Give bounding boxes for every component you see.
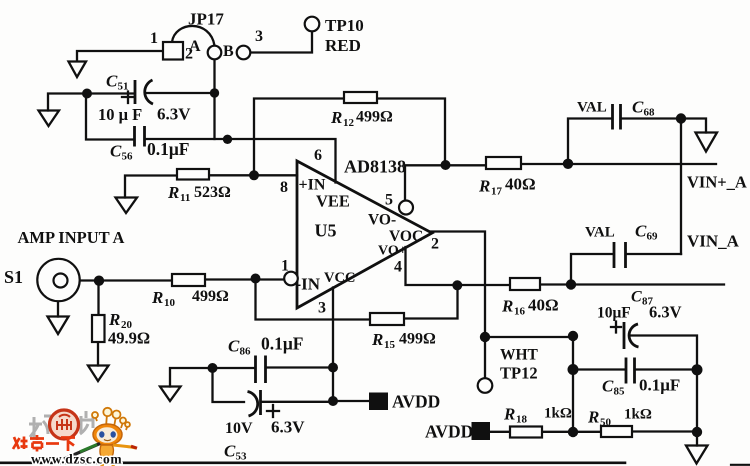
svg-text:TP10: TP10 — [325, 16, 364, 35]
svg-text:R: R — [167, 183, 179, 202]
svg-text:18: 18 — [516, 414, 528, 426]
svg-text:R: R — [330, 108, 342, 127]
svg-text:S1: S1 — [4, 267, 23, 287]
svg-text:51: 51 — [118, 81, 129, 93]
svg-text:JP17: JP17 — [188, 10, 224, 29]
svg-text:0.1μF: 0.1μF — [261, 334, 304, 354]
svg-text:VEE: VEE — [316, 192, 350, 211]
svg-text:85: 85 — [614, 386, 626, 398]
svg-text:68: 68 — [644, 107, 656, 119]
svg-text:R: R — [478, 177, 490, 196]
svg-text:WHT: WHT — [500, 347, 539, 364]
svg-text:U5: U5 — [315, 221, 337, 241]
svg-text:C: C — [602, 377, 614, 396]
svg-text:C: C — [228, 337, 240, 356]
svg-text:C: C — [106, 72, 118, 91]
svg-text:AVDD: AVDD — [392, 392, 440, 412]
svg-text:C: C — [224, 442, 236, 461]
svg-text:C: C — [110, 142, 122, 161]
svg-text:5: 5 — [385, 192, 393, 209]
svg-text:12: 12 — [343, 117, 355, 129]
svg-text:R: R — [371, 330, 383, 349]
svg-text:10V: 10V — [225, 420, 253, 437]
svg-text:R: R — [501, 297, 513, 316]
svg-text:40Ω: 40Ω — [528, 296, 559, 315]
svg-text:6.3V: 6.3V — [271, 418, 305, 437]
svg-text:0.1μF: 0.1μF — [639, 376, 680, 395]
svg-text:17: 17 — [491, 186, 503, 198]
svg-text:499Ω: 499Ω — [399, 331, 436, 348]
svg-text:10μF: 10μF — [597, 305, 631, 322]
svg-text:50: 50 — [600, 417, 612, 429]
svg-text:VOC: VOC — [389, 228, 423, 245]
svg-text:499Ω: 499Ω — [192, 288, 229, 305]
svg-text:VO-: VO- — [368, 212, 396, 229]
svg-text:3: 3 — [318, 300, 326, 317]
svg-text:1: 1 — [150, 30, 158, 47]
svg-text:6: 6 — [314, 147, 322, 164]
svg-text:3: 3 — [255, 28, 263, 45]
svg-text:15: 15 — [384, 339, 396, 351]
svg-text:VCC: VCC — [324, 270, 355, 286]
svg-text:VAL: VAL — [577, 100, 607, 116]
svg-text:86: 86 — [240, 346, 252, 358]
svg-text:B: B — [223, 43, 234, 60]
svg-text:VIN_A: VIN_A — [687, 232, 740, 251]
svg-text:0.1μF: 0.1μF — [147, 139, 190, 159]
svg-text:R: R — [151, 288, 163, 307]
svg-text:www.dzsc.com: www.dzsc.com — [31, 452, 122, 466]
svg-text:11: 11 — [180, 192, 190, 204]
svg-text:56: 56 — [122, 151, 134, 163]
svg-text:AMP INPUT A: AMP INPUT A — [18, 228, 125, 247]
svg-text:AVDD: AVDD — [425, 422, 473, 442]
svg-text:R: R — [587, 408, 599, 427]
svg-text:8: 8 — [280, 179, 288, 196]
svg-text:49.9Ω: 49.9Ω — [108, 329, 150, 348]
svg-text:-IN: -IN — [296, 275, 321, 294]
svg-text:VAL: VAL — [585, 225, 615, 241]
svg-text:1: 1 — [281, 258, 289, 275]
svg-text:53: 53 — [236, 451, 248, 463]
svg-text:1kΩ: 1kΩ — [624, 407, 652, 423]
svg-text:6.3V: 6.3V — [649, 303, 682, 322]
svg-text:R: R — [503, 405, 515, 424]
svg-text:40Ω: 40Ω — [505, 175, 536, 194]
svg-text:16: 16 — [514, 306, 526, 318]
svg-text:69: 69 — [647, 231, 659, 243]
svg-text:C: C — [632, 98, 644, 117]
svg-text:2: 2 — [431, 236, 439, 253]
svg-text:C: C — [635, 222, 647, 241]
svg-text:6.3V: 6.3V — [157, 105, 191, 124]
svg-text:C: C — [631, 289, 642, 306]
svg-text:10: 10 — [164, 297, 176, 309]
svg-text:1kΩ: 1kΩ — [544, 406, 572, 422]
svg-text:523Ω: 523Ω — [194, 184, 231, 201]
svg-text:TP12: TP12 — [500, 364, 538, 383]
svg-text:RED: RED — [325, 36, 361, 55]
svg-text:AD8138: AD8138 — [344, 157, 406, 177]
svg-text:2: 2 — [185, 46, 193, 63]
svg-text:10 μ F: 10 μ F — [98, 105, 142, 124]
svg-text:VIN+_A: VIN+_A — [687, 173, 747, 192]
svg-text:4: 4 — [394, 259, 402, 276]
svg-text:VO+: VO+ — [378, 244, 407, 259]
svg-text:499Ω: 499Ω — [356, 109, 393, 126]
svg-text:R: R — [108, 310, 120, 329]
